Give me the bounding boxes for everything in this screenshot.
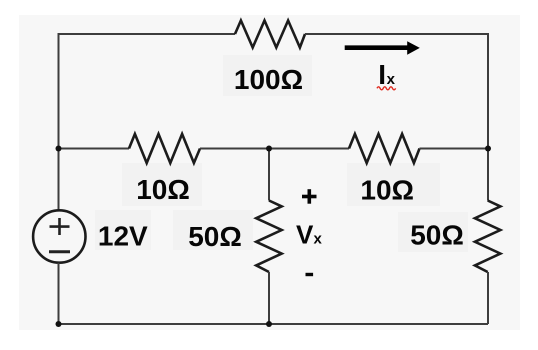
svg-text:x: x <box>387 71 396 88</box>
wire middle horizontal segment 1 <box>59 148 130 150</box>
svg-text:V: V <box>296 220 314 250</box>
red squiggle under Ix <box>377 87 396 90</box>
wire top left horizontal <box>59 33 236 35</box>
label Vx plus polarity <box>302 195 317 199</box>
wire bottom horizontal <box>59 323 489 325</box>
wire middle horizontal segment 2 <box>200 148 349 150</box>
wire right vertical upper <box>487 33 489 201</box>
wire left vertical upper <box>58 33 60 210</box>
label box 100ohm <box>223 55 312 96</box>
voltage source V1 circle <box>33 210 85 262</box>
wire top right horizontal <box>305 33 488 35</box>
node junction dot right-middle <box>485 146 491 152</box>
label box 50ohm left <box>173 210 253 250</box>
svg-text:100Ω: 100Ω <box>234 64 303 95</box>
wire middle horizontal segment 3 <box>420 148 489 150</box>
wire left vertical lower <box>58 263 60 324</box>
label Vx minus polarity <box>306 273 314 276</box>
voltage source minus sign <box>49 250 70 253</box>
resistor R1 100ohm zigzag <box>235 21 305 48</box>
voltage source plus sign <box>50 218 70 235</box>
node junction dot center-bottom <box>266 321 272 327</box>
resistor R5 50ohm right zigzag <box>475 201 501 273</box>
node junction dot left-bottom <box>56 321 62 327</box>
wire right vertical lower <box>487 272 489 324</box>
resistor R3 10ohm right zigzag <box>349 134 420 163</box>
resistor R2 10ohm left zigzag <box>129 134 200 163</box>
svg-text:I: I <box>378 59 386 90</box>
svg-text:12V: 12V <box>98 221 148 252</box>
label box 10ohm left <box>122 163 202 206</box>
current arrow Ix <box>345 45 408 50</box>
label box 50ohm right <box>398 212 468 252</box>
resistor R4 50ohm middle zigzag <box>256 201 282 273</box>
svg-text:10Ω: 10Ω <box>136 174 190 205</box>
wire center vertical upper stub <box>268 149 270 201</box>
svg-text:50Ω: 50Ω <box>188 221 242 252</box>
svg-text:10Ω: 10Ω <box>360 175 414 206</box>
wire center vertical lower stub <box>268 272 270 324</box>
svg-text:50Ω: 50Ω <box>410 220 464 251</box>
label box 12V <box>95 210 151 250</box>
node junction dot center-middle <box>266 146 272 152</box>
svg-text:x: x <box>314 231 323 248</box>
label box 10ohm right <box>347 163 440 206</box>
node junction dot left-middle <box>56 146 62 152</box>
